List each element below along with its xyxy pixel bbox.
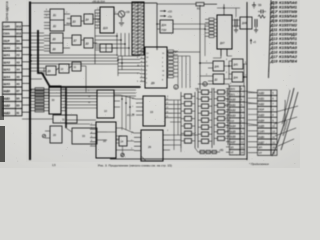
IC D29 (134, 130, 170, 161)
bus drop (thick vertical) (65, 88, 67, 128)
svg-text:СИП: СИП (259, 129, 265, 133)
svg-text:ШД7: ШД7 (230, 141, 236, 144)
svg-text:Д15: Д15 (269, 46, 277, 50)
svg-text:В4: В4 (16, 39, 20, 43)
IC D28 (95, 7, 118, 33)
IC D47 (205, 4, 232, 56)
label +5В (right) (250, 39, 256, 44)
svg-text:ШД6: ШД6 (259, 135, 265, 139)
gate cluster D11 (46, 62, 86, 92)
wire: top rail (30, 2, 157, 4)
svg-text:Рис. 3. Продолжение (начало сх: Рис. 3. Продолжение (начало схемы см. на… (98, 163, 172, 167)
svg-text:ПЗУ: ПЗУ (162, 28, 167, 32)
parts list (component table, right margin) (269, 1, 297, 64)
IC D30 (buffer) (31, 86, 66, 114)
svg-text:К155ЛА4: К155ЛА4 (279, 28, 297, 32)
resistor ladder RN2 (198, 88, 212, 148)
svg-text:ЧТ: ЧТ (259, 151, 263, 155)
gate D5.1 / D5.2 (dual box) (44, 33, 72, 53)
svg-text:Д12: Д12 (269, 33, 277, 37)
svg-text:ОБР: ОБР (259, 108, 265, 112)
IC D9 (big middle) (140, 47, 178, 88)
label +5б arrow (160, 9, 172, 13)
svg-text:К155ИД3: К155ИД3 (279, 33, 297, 37)
resistor ladder RN3 (214, 88, 228, 145)
wire: D19/D29 outputs to inner connector (170, 89, 198, 135)
gate D45.1 (229, 59, 247, 69)
svg-text:Д44: Д44 (234, 77, 239, 80)
svg-text:А6: А6 (16, 82, 20, 86)
svg-text:В12: В12 (16, 24, 21, 28)
svg-text:20: 20 (103, 139, 107, 143)
wire: strip to D9 runs (118, 56, 140, 76)
svg-text:ШД5: ШД5 (259, 124, 265, 128)
svg-text:ША1: ША1 (3, 53, 10, 57)
gate D7.1 (72, 35, 84, 45)
svg-text:В6: В6 (16, 96, 20, 100)
wire: ladder bottoms / RC (170, 88, 198, 152)
svg-text:ШД1: ШД1 (3, 96, 10, 100)
svg-text:К155ТМ9: К155ТМ9 (279, 10, 297, 14)
svg-text:К155ЛЕ1: К155ЛЕ1 (279, 42, 297, 46)
capacitor C1 (234, 19, 238, 33)
svg-text:Д14: Д14 (269, 42, 277, 46)
svg-text:А3: А3 (16, 60, 20, 64)
svg-text:ШД0: ШД0 (3, 89, 10, 93)
svg-text:Д47: Д47 (220, 41, 225, 45)
tiny pin digits texture (46, 8, 247, 150)
svg-text:19: 19 (150, 110, 154, 114)
wire: mid horizontal runs (31, 90, 136, 133)
gate D8.1 (84, 38, 97, 48)
resistor ladder RN1 (181, 92, 195, 148)
wire: verticals right of D29 (170, 100, 181, 150)
svg-text:Д45: Д45 (234, 64, 239, 67)
svg-text:К155ЛЛ1: К155ЛЛ1 (279, 37, 297, 41)
svg-text:ВУ0: ВУ0 (230, 88, 235, 91)
svg-text:В7: В7 (16, 89, 20, 93)
svg-text:ША2: ША2 (3, 60, 10, 64)
svg-text:Д19: Д19 (269, 60, 277, 64)
wire: ladders to connector (226, 91, 228, 128)
svg-text:ШД6: ШД6 (230, 136, 236, 139)
svg-text:+5в: +5в (168, 14, 173, 18)
svg-text:Д11: Д11 (269, 28, 277, 32)
svg-text:ШД2: ШД2 (230, 109, 236, 112)
svg-text:А5: А5 (16, 75, 20, 79)
wire: inner connector top link (198, 84, 229, 87)
svg-text:ЗП: ЗП (230, 146, 234, 149)
svg-text:26: 26 (16, 111, 19, 115)
svg-text:Д7: Д7 (74, 39, 78, 43)
wire: gate cluster verticals (199, 5, 230, 90)
gate D45.2 (229, 72, 247, 82)
svg-text:ЗП: ЗП (259, 146, 263, 150)
svg-text:* Продолжение: * Продолжение (249, 162, 269, 166)
svg-text:ШД4: ШД4 (259, 118, 265, 122)
svg-text:+5В Д1 В14: +5В Д1 В14 (92, 1, 106, 4)
svg-text:29: 29 (148, 145, 152, 149)
bus jog (thick) (38, 30, 140, 87)
svg-text:Шина адреса: Шина адреса (5, 1, 9, 21)
svg-text:К155ТМ2: К155ТМ2 (279, 24, 297, 28)
svg-text:К155ЛЕ4: К155ЛЕ4 (279, 60, 297, 64)
svg-text:К155ИР13: К155ИР13 (279, 19, 297, 23)
svg-text:Д46: Д46 (215, 66, 220, 69)
gate D1.1 / D1.2 (dual NAND box) (44, 9, 70, 31)
svg-text:5В: 5В (258, 3, 262, 7)
svg-text:ША0: ША0 (3, 46, 10, 50)
wire: center vertical drops (D28 to lower) (95, 33, 129, 56)
svg-text:ШД0: ШД0 (259, 91, 265, 95)
svg-text:В13: В13 (16, 32, 21, 36)
svg-text:ШД3: ШД3 (230, 115, 236, 118)
svg-text:ШД7: ШД7 (259, 140, 265, 144)
svg-text:Д9: Д9 (151, 81, 155, 85)
IC D31 (wide latch) (22, 115, 77, 123)
connector X4 (outer right column) (248, 90, 277, 155)
svg-text:ША5: ША5 (3, 82, 10, 86)
svg-text:Д6: Д6 (53, 47, 57, 51)
svg-text:Д17: Д17 (269, 55, 278, 59)
wire: row feeds to gates (31, 33, 118, 79)
connector X1 (address/data bus header, left) (3, 22, 23, 116)
wire: D47 to gates (213, 49, 247, 87)
svg-text:ШД1: ШД1 (230, 104, 236, 107)
svg-text:А4: А4 (16, 68, 20, 72)
wire: D9 right drops (167, 52, 200, 88)
svg-text:Д5: Д5 (53, 37, 57, 41)
capacitor C2 (254, 19, 258, 33)
ground + 5В label (top right) (252, 2, 266, 18)
IC D10 (66, 90, 120, 118)
svg-text:Д16: Д16 (269, 51, 277, 55)
bus line (thick vertical) (29, 2, 31, 161)
svg-text:ВУ1: ВУ1 (230, 93, 235, 96)
IC D20 (90, 122, 122, 158)
svg-text:+5б: +5б (168, 9, 173, 13)
svg-text:ШД2: ШД2 (3, 104, 10, 108)
svg-text:+5Б: +5Б (219, 149, 224, 152)
gate D4.1 (84, 14, 100, 24)
wire: vertical x95 feeder (94, 10, 96, 64)
svg-text:ШД3: ШД3 (3, 111, 10, 115)
IC D32 (45, 126, 62, 143)
label +5в arrow (160, 14, 172, 18)
gate D21 (pair above D9) (95, 44, 118, 52)
transistor V1 (118, 11, 130, 22)
svg-text:ШД3: ШД3 (259, 113, 265, 117)
svg-text:К155ЛА6: К155ЛА6 (279, 1, 297, 5)
svg-text:Д8: Д8 (86, 42, 90, 46)
gate D24 (116, 136, 127, 146)
svg-text:К155ЛА2: К155ЛА2 (279, 55, 297, 59)
IC D33 (wide) (66, 128, 107, 144)
signature (handwritten, bottom right) (281, 120, 289, 136)
svg-text:Д4: Д4 (86, 18, 90, 22)
IC D34 (ПЗУ) (157, 20, 173, 33)
svg-text:ШД0: ШД0 (230, 99, 236, 102)
connector strip X2 (vertical cell column) (132, 2, 144, 55)
svg-text:+5В: +5В (125, 11, 130, 14)
svg-text:ША3: ША3 (3, 68, 10, 72)
IC D19 (136, 96, 172, 126)
wire: connector rows to bus (22, 26, 30, 112)
svg-text:А2: А2 (16, 53, 20, 57)
svg-text:К155ЛА8: К155ЛА8 (279, 46, 297, 50)
svg-text:А1: А1 (16, 46, 20, 50)
svg-text:Д48: Д48 (242, 21, 247, 25)
svg-text:СИП: СИП (3, 24, 9, 28)
gate D46.1 (208, 61, 229, 71)
gate D3.1 (67, 16, 84, 26)
svg-text:В5: В5 (16, 104, 20, 108)
wire: top right runs (173, 8, 240, 56)
svg-text:СИ: СИ (230, 120, 234, 123)
frame line (right inner) (246, 2, 248, 160)
svg-text:ЧТ: ЧТ (230, 152, 234, 155)
svg-text:ШД5: ШД5 (230, 130, 236, 133)
svg-text:Д2: Д2 (53, 24, 57, 28)
wire: bottom middle verticals (66, 96, 134, 141)
svg-text:ШД4: ШД4 (230, 125, 236, 128)
wire: vertical feed x157 (156, 3, 158, 50)
node junction (circled) A (174, 85, 178, 90)
svg-text:ШД2: ШД2 (259, 102, 265, 106)
svg-text:ШД1: ШД1 (259, 97, 265, 101)
connector X3 (inner right column) (226, 86, 245, 155)
resistor R1 (157, 3, 217, 11)
ground (below V1) (119, 23, 124, 26)
svg-text:Д5: Д5 (269, 1, 278, 5)
node junction (circled) B (203, 82, 207, 87)
svg-text:Д3: Д3 (73, 20, 77, 24)
svg-text:Д13: Д13 (269, 37, 277, 41)
svg-text:Д1: Д1 (53, 13, 57, 17)
RC chain bottom (R-R-R +5В) (198, 149, 224, 154)
separator line (list) (269, 0, 272, 78)
pin digit cols D9 (146, 53, 165, 84)
IC D48 (oscillator) with caps (240, 17, 252, 29)
svg-text:К155ЛА9: К155ЛА9 (279, 15, 297, 19)
wire: D20 to D29 link (116, 149, 134, 151)
node dots (30, 7, 245, 108)
wire: frame to outer connector stubs (244, 91, 257, 125)
ground (D24) (121, 146, 124, 157)
svg-text:1,5: 1,5 (52, 163, 56, 167)
edge smudge left (0, 96, 4, 120)
svg-text:Д6: Д6 (269, 6, 278, 10)
svg-text:К155ИЕ5: К155ИЕ5 (279, 51, 297, 55)
svg-text:ША4: ША4 (3, 75, 10, 79)
ground (D32) (42, 134, 45, 137)
svg-text:Д28: Д28 (103, 26, 108, 30)
svg-text:ОБР: ОБР (3, 39, 10, 43)
frame line (bottom) (110, 158, 247, 160)
svg-text:Д34: Д34 (162, 23, 167, 27)
gate D46.2 (208, 74, 229, 84)
svg-text:СИА: СИА (3, 32, 10, 36)
svg-text:К155ЛИ1: К155ЛИ1 (279, 6, 297, 10)
